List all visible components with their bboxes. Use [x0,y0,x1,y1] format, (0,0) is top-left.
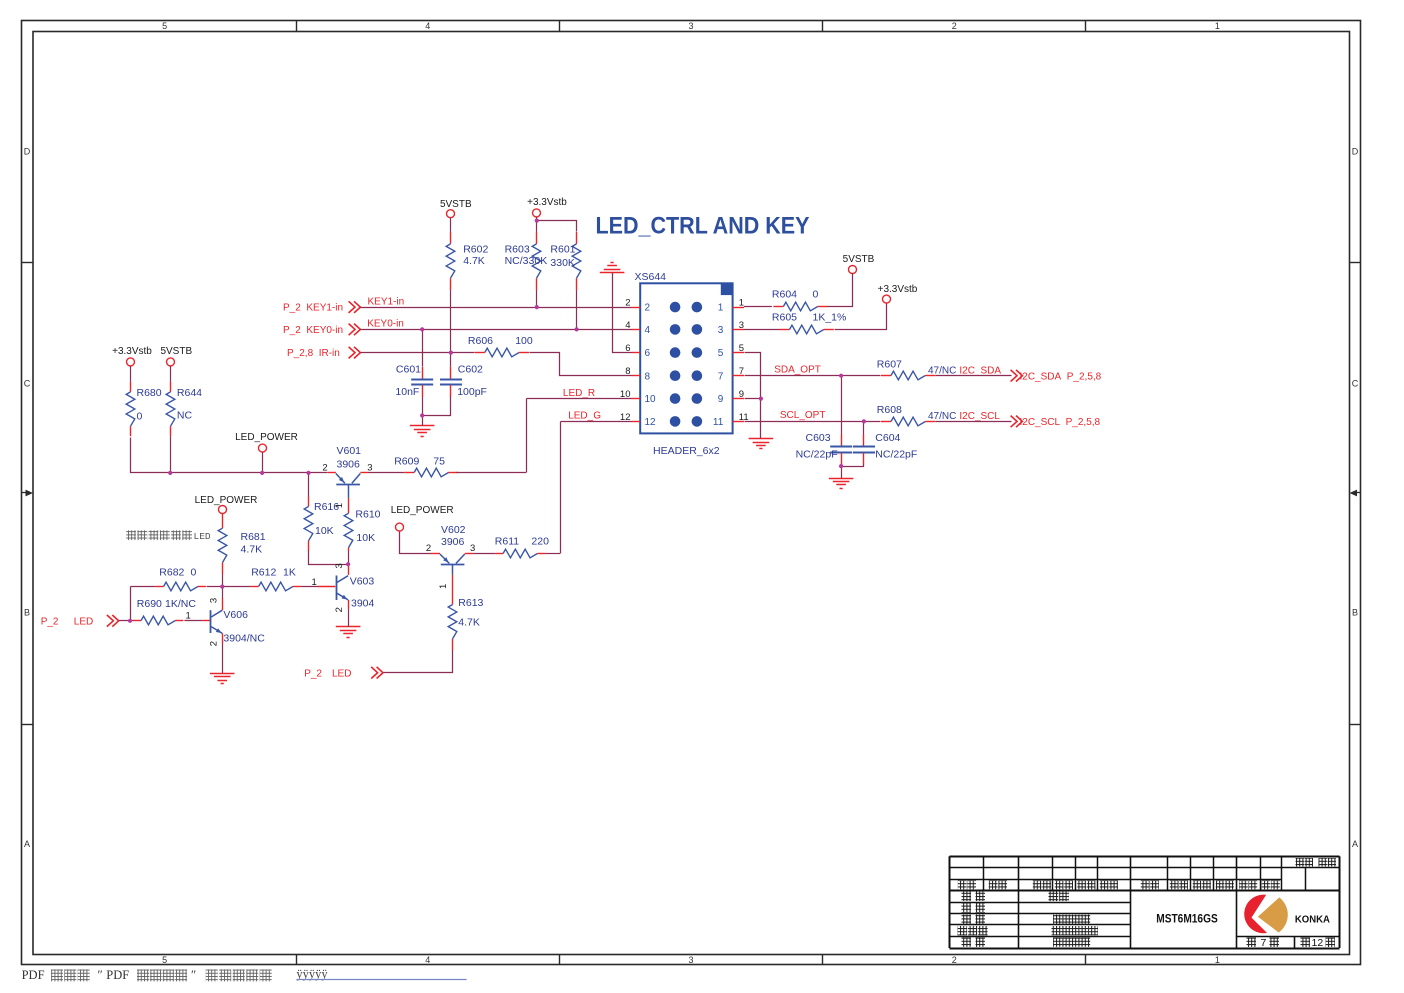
svg-text:LED: LED [194,531,211,542]
svg-text:1K_1%: 1K_1% [813,312,847,324]
svg-text:LED_CTRL AND KEY: LED_CTRL AND KEY [596,213,810,240]
svg-text:10K: 10K [356,532,375,544]
svg-text:R690: R690 [137,598,162,610]
svg-text:C602: C602 [458,364,483,376]
svg-text:R602: R602 [463,244,488,256]
svg-text:3906: 3906 [337,459,361,471]
svg-text:R608: R608 [877,404,902,416]
svg-text:1: 1 [739,298,744,309]
svg-text:KEY0-in: KEY0-in [367,319,404,330]
svg-text:2: 2 [426,543,431,554]
svg-text:A: A [24,839,30,849]
svg-text:V601: V601 [337,445,362,457]
svg-text:9: 9 [718,394,724,405]
svg-text:10nF: 10nF [395,386,419,398]
svg-text:P_2 KEY0-in: P_2 KEY0-in [283,325,343,336]
svg-text:0: 0 [813,289,819,301]
svg-text:75: 75 [433,456,445,468]
svg-text:+3.3Vstb: +3.3Vstb [878,284,918,295]
svg-text:P_2: P_2 [41,616,59,627]
svg-text:A: A [1352,839,1358,849]
svg-text:R682: R682 [159,567,184,579]
svg-text:LED_POWER: LED_POWER [391,505,454,516]
svg-text:C: C [24,379,31,389]
svg-text:11: 11 [713,417,724,428]
svg-text:3: 3 [688,955,693,965]
svg-text:NC/22pF: NC/22pF [875,449,917,461]
svg-text:1K: 1K [283,567,296,579]
svg-text:5: 5 [739,343,744,354]
svg-text:ÿÿÿÿÿ: ÿÿÿÿÿ [296,967,328,981]
svg-text:6: 6 [645,348,651,359]
svg-text:PDF: PDF [22,968,45,982]
svg-text:PDF: PDF [106,968,129,982]
svg-text:+3.3Vstb: +3.3Vstb [112,346,152,357]
svg-text:12: 12 [1312,937,1324,949]
svg-text:P_2,8 IR-in: P_2,8 IR-in [287,348,340,359]
svg-text:LED_G: LED_G [568,411,601,422]
svg-text:1: 1 [438,584,449,589]
svg-text:C: C [1352,379,1359,389]
svg-text:R605: R605 [772,312,797,324]
svg-text:1K/NC: 1K/NC [165,598,196,610]
svg-text:220: 220 [531,536,549,548]
svg-text:9: 9 [739,389,744,400]
svg-text:2: 2 [952,21,957,31]
svg-text:D: D [1352,147,1359,157]
svg-text:I2C_SCL: I2C_SCL [959,411,1000,422]
svg-text:330K: 330K [550,257,575,269]
svg-text:R609: R609 [394,456,419,468]
svg-text:R644: R644 [177,387,202,399]
svg-text:R613: R613 [458,597,483,609]
svg-text:1: 1 [1215,955,1220,965]
svg-text:R604: R604 [772,289,797,301]
svg-text:SDA_OPT: SDA_OPT [774,364,821,375]
svg-text:+3.3Vstb: +3.3Vstb [527,197,567,208]
svg-text:R606: R606 [468,335,493,347]
svg-text:7: 7 [739,366,744,377]
svg-text:1: 1 [312,577,317,588]
svg-text:V606: V606 [223,609,248,621]
svg-text:3906: 3906 [441,536,465,548]
svg-text:47/NC: 47/NC [928,365,956,376]
svg-text:1: 1 [718,303,724,314]
svg-text:C601: C601 [396,364,421,376]
svg-text:NC/330K: NC/330K [505,255,548,267]
svg-text:B: B [24,608,30,618]
svg-text:4.7K: 4.7K [463,255,485,267]
svg-text:0: 0 [137,411,143,423]
svg-text:3: 3 [718,325,724,336]
svg-text:R610: R610 [355,509,380,521]
svg-text:0: 0 [191,567,197,579]
svg-text:SCL_OPT: SCL_OPT [780,410,826,421]
svg-text:2: 2 [645,303,651,314]
svg-text:10K: 10K [315,525,334,537]
svg-text:LED: LED [74,616,93,627]
svg-text:NC: NC [177,409,193,421]
svg-text:I2C_SDA P_2,5,8: I2C_SDA P_2,5,8 [1020,371,1102,382]
svg-text:P_2: P_2 [304,668,322,679]
svg-text:5: 5 [162,21,167,31]
svg-text:I2C_SDA: I2C_SDA [959,365,1001,376]
svg-text:2: 2 [209,641,220,646]
svg-text:C604: C604 [875,432,900,444]
svg-text:5VSTB: 5VSTB [160,346,192,357]
svg-text:LED: LED [332,668,351,679]
svg-text:4.7K: 4.7K [458,617,480,629]
svg-text:V603: V603 [350,576,375,588]
svg-text:3904: 3904 [351,597,375,609]
svg-text:XS644: XS644 [635,271,667,283]
svg-text:5: 5 [718,348,724,359]
svg-text:1: 1 [1215,21,1220,31]
svg-text:KONKA: KONKA [1295,914,1330,925]
svg-text:2: 2 [952,955,957,965]
svg-text:R612: R612 [251,567,276,579]
svg-text:7: 7 [718,371,724,382]
svg-text:″: ″ [98,968,103,982]
svg-text:LED_R: LED_R [563,388,595,399]
svg-text:R680: R680 [137,387,162,399]
svg-text:10: 10 [645,394,657,405]
svg-text:47/NC: 47/NC [928,411,956,422]
svg-text:8: 8 [645,371,651,382]
svg-text:KEY1-in: KEY1-in [368,296,405,307]
svg-text:2: 2 [334,607,345,612]
svg-text:″: ″ [191,968,196,982]
svg-text:R607: R607 [877,359,902,371]
svg-text:P_2 KEY1-in: P_2 KEY1-in [283,303,343,314]
svg-text:3: 3 [470,543,475,554]
svg-text:2: 2 [322,463,327,474]
svg-text:100pF: 100pF [457,386,487,398]
svg-text:100: 100 [515,335,533,347]
svg-text:4: 4 [425,21,430,31]
svg-text:LED_POWER: LED_POWER [235,432,298,443]
svg-text:LED_POWER: LED_POWER [195,495,258,506]
svg-text:3904/NC: 3904/NC [223,633,265,645]
svg-text:R681: R681 [241,531,266,543]
svg-text:C603: C603 [806,432,831,444]
svg-text:4: 4 [645,325,651,336]
svg-text:R601: R601 [550,244,575,256]
svg-text:1: 1 [185,610,190,621]
svg-text:R603: R603 [505,244,530,256]
svg-text:I2C_SCL P_2,5,8: I2C_SCL P_2,5,8 [1020,417,1101,428]
svg-text:3: 3 [334,563,345,568]
svg-text:MST6M16GS: MST6M16GS [1156,914,1218,926]
svg-text:D: D [24,147,31,157]
svg-text:4: 4 [425,955,430,965]
svg-text:12: 12 [645,417,657,428]
svg-text:3: 3 [688,21,693,31]
svg-text:NC/22pF: NC/22pF [796,449,838,461]
svg-text:5: 5 [162,955,167,965]
svg-text:3: 3 [739,320,744,331]
svg-text:1: 1 [334,503,345,508]
svg-text:3: 3 [367,463,372,474]
svg-text:B: B [1352,608,1358,618]
svg-text:7: 7 [1261,937,1267,949]
svg-text:HEADER_6x2: HEADER_6x2 [653,445,720,457]
svg-text:4.7K: 4.7K [241,544,263,556]
svg-text:V602: V602 [441,524,466,536]
svg-text:5VSTB: 5VSTB [843,254,875,265]
svg-text:5VSTB: 5VSTB [440,199,472,210]
svg-text:3: 3 [209,598,220,603]
svg-text:R611: R611 [495,536,519,548]
